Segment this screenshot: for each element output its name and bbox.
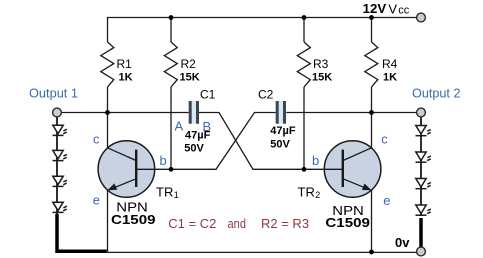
svg-text:1K: 1K	[383, 72, 397, 84]
svg-text:and: and	[228, 216, 247, 231]
svg-text:C2: C2	[258, 88, 274, 102]
svg-text:1K: 1K	[119, 72, 133, 84]
wire C2 right plate to Output2	[286, 112, 417, 114]
wire R3 bottom lead to TR2 base	[303, 87, 305, 169]
wire thick LED return right	[419, 218, 423, 248]
wire TR2 collector	[371, 113, 373, 149]
wire R4 bottom lead	[371, 87, 373, 113]
node TR2 emitter junction	[369, 250, 374, 255]
svg-text:R2 = R3: R2 = R3	[261, 216, 309, 231]
svg-text:C1: C1	[200, 88, 216, 102]
svg-text:Output 2: Output 2	[412, 86, 461, 101]
node R2 top junction	[169, 15, 174, 20]
svg-text:R1: R1	[117, 57, 133, 71]
wire R2 bottom lead to TR1 base	[170, 87, 172, 169]
svg-text:R2: R2	[181, 57, 197, 71]
LED D4	[53, 202, 67, 212]
wire R1 bottom lead	[107, 87, 109, 113]
resistor R1	[101, 42, 114, 87]
svg-text:50V: 50V	[184, 142, 204, 154]
svg-text:e: e	[383, 193, 390, 208]
resistor R4	[365, 42, 378, 87]
node TR2 base junction	[302, 167, 307, 172]
svg-text:47µF: 47µF	[185, 129, 211, 141]
wire collector node to C1 left plate	[108, 112, 190, 114]
wire R4 top lead	[371, 18, 373, 43]
svg-text:C1 = C2: C1 = C2	[168, 216, 216, 231]
wire TR1 collector	[107, 113, 109, 149]
node TR1 base junction	[169, 167, 174, 172]
svg-text:R4: R4	[382, 57, 398, 71]
svg-text:c: c	[381, 132, 388, 147]
svg-text:e: e	[93, 193, 100, 208]
LED D5	[416, 126, 431, 136]
terminal 0v	[417, 247, 426, 256]
svg-text:R3: R3	[313, 57, 329, 71]
svg-text:0v: 0v	[395, 235, 410, 250]
wire C1 right plate to TR2 base (cross link)	[199, 113, 343, 170]
capacitor C1	[189, 101, 199, 124]
LED D3	[53, 176, 67, 186]
resistor R3	[297, 42, 310, 87]
svg-text:C1509: C1509	[111, 212, 156, 227]
node R3 top junction	[302, 15, 307, 20]
terminal Output 1	[53, 108, 62, 117]
svg-text:cc: cc	[398, 5, 410, 17]
wire C2 left plate to TR1 base (cross link)	[136, 113, 276, 170]
terminal Vcc	[417, 13, 426, 22]
svg-text:b: b	[160, 153, 167, 168]
svg-text:15K: 15K	[312, 72, 332, 84]
svg-text:C1509: C1509	[325, 215, 370, 230]
node R4 Vcc junction	[369, 15, 374, 20]
svg-text:A: A	[175, 119, 184, 134]
svg-text:12V: 12V	[363, 1, 387, 16]
svg-text:2: 2	[315, 190, 320, 200]
wire TR2 emitter to 0v rail	[371, 190, 373, 253]
svg-text:TR: TR	[298, 185, 315, 200]
transistor TR2	[324, 141, 381, 198]
wire thick LED return left	[57, 214, 107, 251]
node TR1 collector junction	[105, 110, 110, 115]
resistor R2	[164, 42, 177, 87]
wire bottom 0v rail	[108, 251, 418, 253]
transistor TR1	[98, 141, 155, 198]
svg-text:Output 1: Output 1	[29, 86, 78, 101]
svg-text:TR: TR	[156, 185, 173, 200]
wire TR1 emitter to 0v rail	[107, 190, 109, 253]
LED D2	[53, 150, 67, 160]
svg-text:c: c	[93, 132, 100, 147]
wire R2 top lead	[170, 18, 172, 43]
wire LED chain left	[56, 117, 58, 214]
capacitor C2	[276, 101, 286, 124]
wire LED chain right	[420, 117, 422, 216]
wire R3 top lead	[303, 18, 305, 43]
terminal Output 2	[417, 108, 426, 117]
svg-text:50V: 50V	[270, 138, 290, 150]
svg-text:15K: 15K	[180, 72, 200, 84]
LED D6	[416, 152, 431, 162]
wire top rail Vcc	[108, 18, 417, 43]
svg-text:1: 1	[174, 190, 179, 200]
LED D1	[53, 125, 67, 135]
svg-text:b: b	[312, 153, 319, 168]
LED D7	[416, 179, 431, 189]
node TR2 collector junction	[369, 110, 374, 115]
svg-text:V: V	[388, 2, 397, 17]
LED D8	[416, 205, 431, 215]
svg-text:47µF: 47µF	[270, 125, 296, 137]
wire Output1 to collector node	[62, 112, 108, 114]
